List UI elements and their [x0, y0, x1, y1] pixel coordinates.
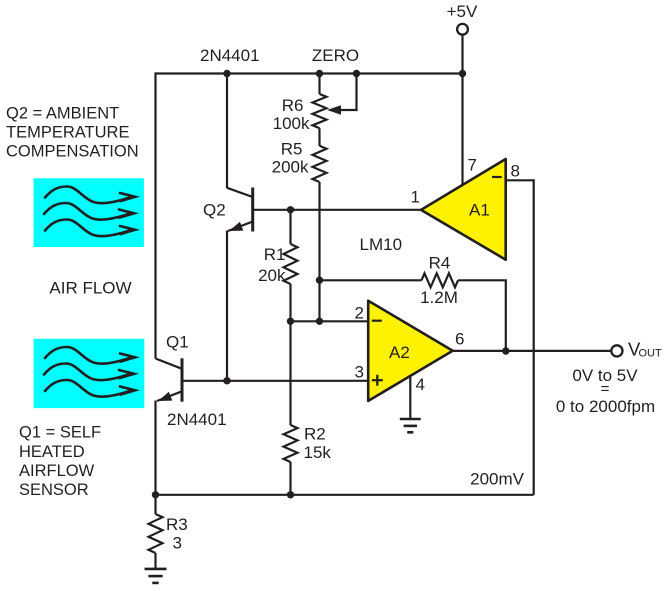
label R2 — [304, 425, 326, 444]
wire R6 wiper to top rail — [341, 74, 357, 111]
svg-text:A2: A2 — [389, 343, 410, 362]
A2 pin 4 number — [416, 375, 425, 394]
svg-text:AIRFLOW: AIRFLOW — [19, 462, 95, 480]
label 2N4401 (Q2) — [200, 46, 260, 65]
svg-text:AIR FLOW: AIR FLOW — [49, 279, 131, 298]
label R6 — [282, 96, 304, 115]
label +5V — [447, 2, 478, 21]
A2 plus sign — [372, 375, 383, 386]
node Q2 collector / top rail — [223, 70, 230, 77]
svg-text:200mV: 200mV — [470, 470, 525, 489]
pot wiper arrow — [327, 105, 341, 115]
svg-text:TEMPERATURE: TEMPERATURE — [6, 124, 129, 142]
svg-text:8: 8 — [511, 162, 520, 181]
resistor R2 15k — [284, 425, 298, 462]
wire A1 pin 8 feedback down — [506, 180, 534, 495]
wire A2 pin 2 input — [291, 320, 369, 322]
svg-text:Q2 = AMBIENT: Q2 = AMBIENT — [6, 105, 119, 123]
wire A2 output to VOUT — [452, 350, 612, 352]
ground (R3) — [145, 569, 167, 583]
A2 pin 2 number — [355, 304, 364, 323]
svg-text:Q2: Q2 — [203, 201, 226, 220]
node R2 bottom — [287, 491, 294, 498]
A1 pin 8 number — [511, 162, 520, 181]
svg-text:3: 3 — [355, 363, 364, 382]
A2 pin 3 number — [355, 363, 364, 382]
node R1 bottom / pin2 — [287, 318, 294, 325]
label 0V to 5V — [572, 366, 638, 385]
svg-text:15k: 15k — [304, 443, 332, 462]
svg-text:R2: R2 — [304, 425, 326, 444]
node wiper / top rail — [353, 70, 360, 77]
svg-text:20k: 20k — [258, 266, 286, 285]
label 200k — [272, 158, 309, 177]
svg-text:4: 4 — [416, 375, 425, 394]
note Q2 ambient — [6, 105, 139, 161]
svg-text:OUT: OUT — [639, 348, 663, 360]
resistor R4 1.2M — [422, 273, 459, 287]
note Q1 self heated — [19, 424, 101, 499]
label A2 — [389, 343, 410, 362]
svg-text:3: 3 — [173, 534, 182, 553]
svg-text:200k: 200k — [272, 158, 309, 177]
label 200mV — [470, 470, 525, 489]
airflow box (sensor) — [34, 339, 145, 408]
op-amp A2 (LM10) — [368, 301, 453, 401]
svg-text:R1: R1 — [264, 245, 286, 264]
wire left rail (top wire to Q1 collector) — [154, 72, 156, 358]
label 15k — [304, 443, 332, 462]
label Q1 — [166, 333, 189, 352]
wire R4 right to output node — [458, 280, 506, 351]
svg-text:2: 2 — [355, 304, 364, 323]
node R5 bottom / pin2 — [316, 318, 323, 325]
label LM10 — [360, 235, 403, 254]
label 100k — [273, 114, 310, 133]
svg-text:SENSOR: SENSOR — [19, 481, 89, 499]
svg-text:1: 1 — [411, 188, 420, 207]
resistor R6 100k potentiometer — [313, 94, 327, 128]
node R4 right / output — [502, 347, 509, 354]
svg-text:ZERO: ZERO — [312, 46, 359, 65]
label R5 — [281, 140, 303, 159]
wire Q2 emitter down to Q1 base node — [226, 231, 228, 381]
svg-text:R3: R3 — [166, 515, 188, 534]
wire R3 top lead — [154, 495, 156, 514]
wire A2 pin 4 to ground — [409, 376, 411, 419]
node Q1 base / Q2 emitter — [223, 377, 230, 384]
label 3 — [173, 534, 182, 553]
label R4 — [429, 254, 451, 273]
A2 pin 6 number — [455, 330, 464, 349]
svg-text:=: = — [601, 381, 610, 398]
svg-text:2N4401: 2N4401 — [167, 410, 227, 429]
svg-text:7: 7 — [468, 156, 477, 175]
svg-text:100k: 100k — [273, 114, 310, 133]
label = — [601, 381, 610, 398]
svg-text:2N4401: 2N4401 — [200, 46, 260, 65]
label R1 — [264, 245, 286, 264]
wire bottom 200mV rail — [156, 494, 534, 496]
svg-text:Q1: Q1 — [166, 333, 189, 352]
wire R3 bottom lead to ground — [154, 553, 156, 569]
resistor R5 200k — [313, 146, 327, 182]
label VOUT — [628, 338, 662, 359]
resistor R3 3 — [149, 514, 163, 553]
label AIR FLOW — [49, 279, 131, 298]
svg-text:R5: R5 — [281, 140, 303, 159]
label ZERO — [312, 46, 359, 65]
wire R4 left branch — [320, 279, 422, 281]
wire Q1 base to A2 pin 3 — [182, 380, 369, 382]
A1 inverting minus sign — [492, 176, 502, 178]
wire left rail Q1 emitter down — [154, 401, 156, 495]
wire R6/R5 vertical branch — [318, 74, 320, 322]
label 0 to 2000fpm — [556, 397, 655, 416]
VOUT terminal — [611, 345, 622, 356]
node R4 left — [316, 277, 323, 284]
transistor Q1 2N4401 — [156, 358, 183, 401]
node +5V tap — [459, 70, 466, 77]
svg-text:0 to 2000fpm: 0 to 2000fpm — [556, 397, 655, 416]
airflow box (ambient) — [34, 178, 144, 247]
label A1 — [469, 201, 490, 220]
svg-text:A1: A1 — [469, 201, 490, 220]
wire top rail +5V bus — [156, 72, 463, 74]
wire A1 pin 1 / Q2 base — [253, 209, 422, 211]
op-amp A1 (LM10) — [421, 159, 506, 260]
svg-text:1.2M: 1.2M — [420, 288, 458, 307]
label R3 — [166, 515, 188, 534]
label 20k — [258, 266, 286, 285]
+5V terminal — [457, 24, 468, 35]
node bottom left rail — [152, 491, 159, 498]
svg-text:+5V: +5V — [447, 2, 478, 21]
label 2N4401 (Q1) — [167, 410, 227, 429]
label 1.2M — [420, 288, 458, 307]
wire +5V to A1 pin 7 — [461, 35, 463, 186]
svg-text:R6: R6 — [282, 96, 304, 115]
node R1 top / pin1 — [287, 206, 294, 213]
svg-text:R4: R4 — [429, 254, 451, 273]
svg-text:COMPENSATION: COMPENSATION — [6, 143, 139, 161]
label Q2 — [203, 201, 226, 220]
A1 pin 7 number — [468, 156, 477, 175]
wire R1/R2 vertical branch — [289, 210, 291, 495]
svg-text:Q1 = SELF: Q1 = SELF — [19, 424, 101, 442]
transistor Q2 2N4401 — [227, 188, 253, 232]
A2 inverting minus sign — [372, 320, 382, 322]
svg-text:6: 6 — [455, 330, 464, 349]
wire Q2 collector to top rail — [226, 74, 228, 189]
A1 pin 1 number — [411, 188, 420, 207]
ground (A2 pin 4) — [400, 419, 421, 432]
svg-text:LM10: LM10 — [360, 235, 403, 254]
resistor R1 20k — [284, 244, 298, 284]
svg-text:HEATED: HEATED — [19, 443, 85, 461]
node R6 top — [316, 70, 323, 77]
